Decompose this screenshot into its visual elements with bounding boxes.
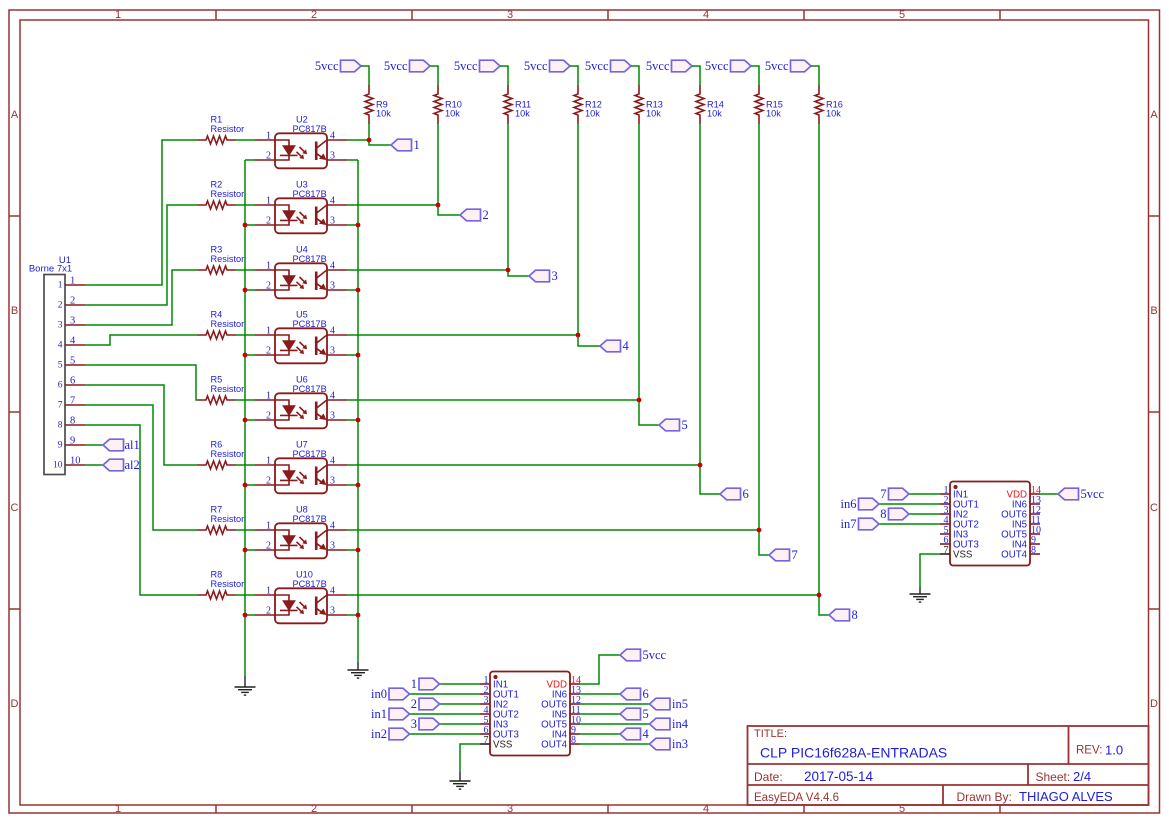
- svg-text:5: 5: [70, 356, 75, 367]
- svg-text:4: 4: [643, 727, 650, 741]
- svg-text:Resistor: Resistor: [211, 254, 245, 264]
- svg-text:THIAGO ALVES: THIAGO ALVES: [1019, 789, 1113, 804]
- svg-text:U3: U3: [296, 180, 308, 190]
- svg-text:7: 7: [484, 735, 489, 746]
- svg-text:B: B: [11, 305, 18, 317]
- svg-text:4: 4: [330, 196, 335, 207]
- svg-text:10k: 10k: [585, 109, 600, 119]
- svg-text:3: 3: [330, 541, 335, 552]
- svg-text:REV:: REV:: [1076, 745, 1102, 757]
- svg-text:5vcc: 5vcc: [765, 59, 789, 73]
- svg-text:10: 10: [53, 461, 63, 471]
- svg-text:8: 8: [70, 416, 75, 427]
- svg-text:D: D: [11, 698, 19, 710]
- svg-text:1: 1: [58, 281, 63, 291]
- svg-text:OUT4: OUT4: [541, 740, 567, 751]
- svg-text:in1: in1: [371, 707, 387, 721]
- svg-text:1: 1: [70, 276, 75, 287]
- svg-text:4: 4: [703, 9, 709, 21]
- svg-text:4: 4: [58, 341, 63, 351]
- svg-text:3: 3: [507, 9, 513, 21]
- svg-text:10k: 10k: [515, 109, 530, 119]
- svg-text:5vcc: 5vcc: [643, 648, 667, 662]
- svg-text:1: 1: [266, 131, 271, 142]
- svg-text:VSS: VSS: [953, 550, 973, 561]
- svg-text:Resistor: Resistor: [211, 449, 245, 459]
- svg-text:4: 4: [330, 391, 335, 402]
- svg-text:4: 4: [330, 521, 335, 532]
- svg-text:4: 4: [330, 131, 335, 142]
- svg-text:3: 3: [330, 216, 335, 227]
- svg-text:5vcc: 5vcc: [705, 59, 729, 73]
- svg-text:2: 2: [483, 208, 489, 222]
- svg-text:in7: in7: [841, 517, 857, 531]
- svg-text:U7: U7: [296, 440, 308, 450]
- svg-text:1: 1: [266, 521, 271, 532]
- svg-text:6: 6: [643, 687, 649, 701]
- svg-text:10k: 10k: [826, 109, 841, 119]
- svg-text:5: 5: [899, 9, 905, 21]
- svg-text:in2: in2: [371, 727, 387, 741]
- svg-text:8: 8: [880, 507, 886, 521]
- svg-text:5vcc: 5vcc: [315, 59, 339, 73]
- svg-text:4: 4: [70, 336, 76, 347]
- svg-text:2: 2: [58, 301, 63, 311]
- svg-text:in6: in6: [841, 497, 857, 511]
- svg-text:al1: al1: [125, 438, 140, 452]
- svg-text:R4: R4: [211, 310, 223, 320]
- svg-text:4: 4: [330, 261, 335, 272]
- svg-text:6: 6: [70, 376, 75, 387]
- svg-text:U8: U8: [296, 505, 308, 515]
- svg-text:5vcc: 5vcc: [454, 59, 478, 73]
- svg-text:R5: R5: [211, 375, 223, 385]
- svg-text:R8: R8: [211, 570, 223, 580]
- svg-text:1: 1: [266, 261, 271, 272]
- svg-text:Resistor: Resistor: [211, 319, 245, 329]
- svg-text:10k: 10k: [376, 109, 391, 119]
- svg-text:3: 3: [58, 321, 63, 331]
- svg-text:B: B: [1150, 305, 1157, 317]
- svg-text:8: 8: [1031, 545, 1036, 556]
- svg-text:1: 1: [414, 138, 420, 152]
- svg-text:C: C: [11, 502, 19, 514]
- svg-text:1: 1: [266, 326, 271, 337]
- svg-text:CLP PIC16f628A-ENTRADAS: CLP PIC16f628A-ENTRADAS: [760, 745, 947, 761]
- svg-text:VSS: VSS: [493, 740, 513, 751]
- svg-text:4: 4: [330, 456, 335, 467]
- svg-text:2: 2: [266, 476, 271, 487]
- svg-text:5: 5: [58, 361, 63, 371]
- svg-text:5vcc: 5vcc: [585, 59, 609, 73]
- svg-text:in3: in3: [672, 737, 688, 751]
- svg-text:3: 3: [330, 346, 335, 357]
- svg-text:6: 6: [743, 487, 749, 501]
- svg-text:5vcc: 5vcc: [384, 59, 408, 73]
- svg-text:2/4: 2/4: [1073, 769, 1091, 784]
- svg-text:10k: 10k: [766, 109, 781, 119]
- svg-text:C: C: [1150, 502, 1158, 514]
- svg-text:2: 2: [266, 346, 271, 357]
- svg-text:1: 1: [266, 196, 271, 207]
- svg-text:Resistor: Resistor: [211, 579, 245, 589]
- svg-text:1: 1: [115, 803, 121, 815]
- svg-text:4: 4: [330, 326, 335, 337]
- svg-text:3: 3: [70, 316, 75, 327]
- svg-text:8: 8: [852, 608, 858, 622]
- svg-text:10k: 10k: [707, 109, 722, 119]
- svg-text:U2: U2: [296, 115, 308, 125]
- svg-text:R3: R3: [211, 245, 223, 255]
- svg-text:A: A: [1150, 109, 1158, 121]
- svg-text:Resistor: Resistor: [211, 189, 245, 199]
- svg-text:R1: R1: [211, 115, 223, 125]
- svg-text:8: 8: [571, 735, 576, 746]
- svg-text:R7: R7: [211, 505, 223, 515]
- svg-text:3: 3: [411, 717, 417, 731]
- svg-text:7: 7: [880, 487, 886, 501]
- svg-text:in5: in5: [672, 697, 688, 711]
- svg-text:2017-05-14: 2017-05-14: [804, 769, 874, 784]
- svg-text:7: 7: [792, 548, 798, 562]
- svg-text:5vcc: 5vcc: [646, 59, 670, 73]
- svg-text:U6: U6: [296, 375, 308, 385]
- svg-text:3: 3: [330, 476, 335, 487]
- svg-text:10k: 10k: [445, 109, 460, 119]
- svg-text:A: A: [11, 109, 19, 121]
- svg-text:10: 10: [70, 456, 81, 467]
- svg-text:R6: R6: [211, 440, 223, 450]
- svg-text:2: 2: [266, 216, 271, 227]
- svg-text:6: 6: [58, 381, 63, 391]
- svg-text:in4: in4: [672, 717, 689, 731]
- svg-text:5vcc: 5vcc: [524, 59, 548, 73]
- svg-text:9: 9: [70, 436, 75, 447]
- svg-text:Resistor: Resistor: [211, 514, 245, 524]
- svg-text:1: 1: [266, 391, 271, 402]
- svg-text:1: 1: [411, 677, 417, 691]
- svg-text:R2: R2: [211, 180, 223, 190]
- svg-text:7: 7: [944, 545, 949, 556]
- svg-text:9: 9: [58, 441, 63, 451]
- svg-text:U5: U5: [296, 310, 308, 320]
- svg-text:2: 2: [70, 296, 75, 307]
- svg-text:2: 2: [411, 697, 417, 711]
- svg-text:5: 5: [643, 707, 649, 721]
- svg-text:U10: U10: [296, 570, 313, 580]
- svg-text:EasyEDA V4.4.6: EasyEDA V4.4.6: [754, 792, 839, 804]
- svg-text:Drawn By:: Drawn By:: [957, 790, 1012, 804]
- svg-text:1.0: 1.0: [1105, 743, 1123, 758]
- svg-text:Date:: Date:: [754, 770, 783, 784]
- svg-text:1: 1: [115, 9, 121, 21]
- svg-text:2: 2: [311, 803, 317, 815]
- svg-text:8: 8: [58, 421, 63, 431]
- svg-text:2: 2: [266, 411, 271, 422]
- svg-text:3: 3: [330, 281, 335, 292]
- svg-text:1: 1: [266, 586, 271, 597]
- svg-text:3: 3: [507, 803, 513, 815]
- svg-text:4: 4: [703, 803, 709, 815]
- svg-text:5vcc: 5vcc: [1081, 487, 1105, 501]
- svg-text:2: 2: [266, 541, 271, 552]
- svg-text:3: 3: [330, 151, 335, 162]
- svg-text:7: 7: [70, 396, 75, 407]
- svg-text:U4: U4: [296, 245, 308, 255]
- svg-text:Resistor: Resistor: [211, 124, 245, 134]
- svg-text:TITLE:: TITLE:: [754, 728, 787, 740]
- svg-text:2: 2: [266, 151, 271, 162]
- svg-text:3: 3: [330, 606, 335, 617]
- svg-text:Sheet:: Sheet:: [1036, 770, 1071, 784]
- svg-text:al2: al2: [125, 458, 140, 472]
- svg-text:2: 2: [266, 606, 271, 617]
- svg-text:in0: in0: [371, 687, 387, 701]
- svg-text:3: 3: [330, 411, 335, 422]
- svg-text:2: 2: [266, 281, 271, 292]
- svg-text:D: D: [1150, 698, 1158, 710]
- svg-text:5: 5: [682, 418, 688, 432]
- svg-text:Resistor: Resistor: [211, 384, 245, 394]
- svg-text:10k: 10k: [646, 109, 661, 119]
- svg-text:4: 4: [623, 339, 630, 353]
- svg-text:2: 2: [311, 9, 317, 21]
- svg-text:7: 7: [58, 401, 63, 411]
- svg-text:4: 4: [330, 586, 335, 597]
- svg-text:Borne 7x1: Borne 7x1: [29, 264, 72, 275]
- svg-text:OUT4: OUT4: [1001, 550, 1027, 561]
- svg-text:1: 1: [266, 456, 271, 467]
- svg-text:3: 3: [552, 269, 558, 283]
